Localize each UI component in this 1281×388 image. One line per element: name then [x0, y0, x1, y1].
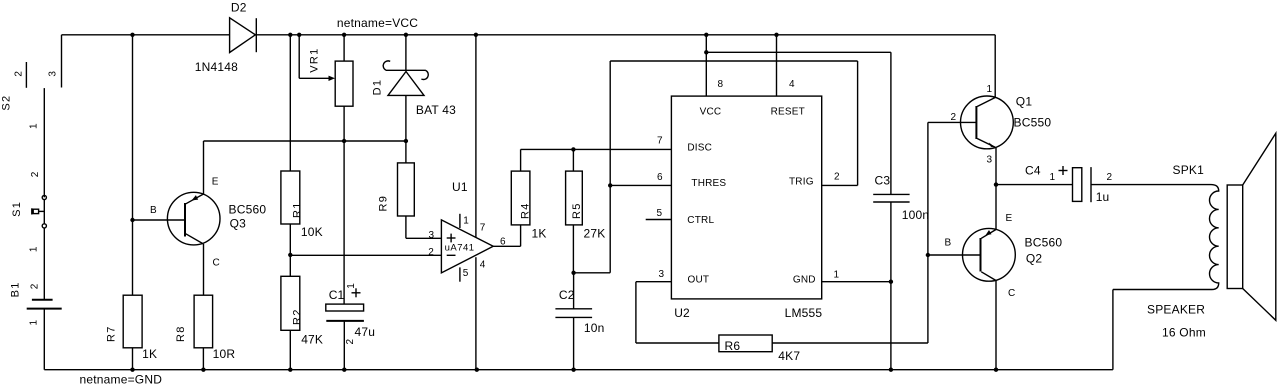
svg-text:7: 7: [657, 136, 663, 147]
svg-text:DISC: DISC: [687, 143, 712, 154]
svg-text:TRIG: TRIG: [789, 177, 814, 188]
svg-text:1u: 1u: [1096, 190, 1110, 204]
svg-text:47u: 47u: [355, 325, 376, 339]
junction: R5 top on DISC wire: [571, 147, 575, 151]
junction: R5/C2/TRIG loop: [571, 271, 575, 275]
svg-text:RESET: RESET: [771, 107, 805, 118]
svg-text:8: 8: [718, 79, 724, 90]
svg-text:47K: 47K: [301, 333, 323, 347]
svg-text:27K: 27K: [584, 227, 606, 241]
svg-text:1: 1: [346, 283, 357, 289]
svg-text:THRES: THRES: [691, 178, 726, 189]
junction: C1 at GND: [342, 368, 346, 372]
svg-text:2: 2: [1107, 172, 1113, 183]
svg-text:VR1: VR1: [308, 47, 320, 72]
svg-text:2: 2: [30, 171, 41, 177]
svg-text:U1: U1: [452, 180, 468, 194]
svg-text:VCC: VCC: [700, 107, 722, 118]
svg-text:netname=GND: netname=GND: [80, 373, 163, 387]
wire DISC net: [521, 148, 672, 150]
svg-text:B: B: [150, 205, 157, 216]
svg-text:OUT: OUT: [688, 275, 710, 286]
svg-text:10K: 10K: [301, 225, 323, 239]
transistor Q1 BC550: [951, 35, 1052, 185]
svg-text:C: C: [213, 257, 220, 268]
junction: VR1 bottom on emitter wire: [342, 139, 346, 143]
svg-text:E: E: [212, 177, 219, 188]
junction: R1/R2 divider: [288, 253, 292, 257]
svg-text:SPEAKER: SPEAKER: [1147, 303, 1205, 317]
junction: U1 pin7 riser at VCC: [474, 33, 478, 37]
junction: Q3 base tap: [130, 218, 134, 222]
svg-text:5: 5: [463, 268, 469, 279]
svg-text:1K: 1K: [532, 227, 547, 241]
resistor R5 27K: [566, 149, 606, 272]
svg-text:10n: 10n: [584, 321, 605, 335]
junction: VR1 wiper at VCC: [297, 33, 301, 37]
junction: Q1/Q2 base node: [926, 253, 930, 257]
svg-text:100n: 100n: [902, 208, 930, 222]
svg-text:BC560: BC560: [1025, 235, 1063, 249]
junction: C3 tap on pin8 riser: [704, 50, 708, 54]
svg-text:C2: C2: [559, 288, 575, 302]
junction: R1 riser at VCC: [288, 33, 292, 37]
svg-text:16 Ohm: 16 Ohm: [1162, 326, 1206, 340]
junction: D1/R9 on emitter wire: [404, 139, 408, 143]
net VCC rail: [62, 16, 996, 35]
svg-text:1N4148: 1N4148: [195, 60, 238, 74]
wire S1 to B1: [43, 228, 45, 300]
speaker SPK1: [1113, 133, 1276, 369]
capacitor C4 1u: [996, 164, 1211, 205]
potentiometer VR1: [299, 35, 353, 141]
junction: VR1 top at VCC: [342, 33, 346, 37]
wire Q3 base: [133, 219, 186, 221]
svg-text:1: 1: [29, 320, 40, 326]
resistor R1 10K: [281, 35, 323, 276]
svg-text:netname=VCC: netname=VCC: [337, 16, 418, 30]
resistor R9: [378, 163, 442, 238]
junction: U1 pin4 at GND: [475, 368, 479, 372]
svg-text:uA741: uA741: [445, 243, 475, 254]
svg-text:CTRL: CTRL: [687, 215, 714, 226]
svg-text:4: 4: [789, 79, 795, 90]
svg-text:Q3: Q3: [230, 217, 247, 231]
svg-text:1: 1: [987, 84, 993, 95]
svg-text:3: 3: [47, 71, 58, 77]
transistor Q2 BC560: [945, 185, 1063, 370]
svg-text:7: 7: [480, 223, 486, 234]
wire VCC to Q3 base / R7: [132, 35, 134, 295]
wire VCC to C3: [706, 52, 891, 194]
junction: R8 at GND: [201, 368, 205, 372]
junction: Q2 collector at GND: [994, 368, 998, 372]
svg-text:SPK1: SPK1: [1173, 163, 1205, 177]
svg-text:1: 1: [834, 270, 840, 281]
svg-text:1: 1: [1050, 172, 1056, 183]
wire THRES/TRIG loop: [574, 61, 858, 273]
svg-text:R7: R7: [106, 325, 118, 342]
svg-text:1: 1: [29, 246, 40, 252]
op-amp U1 uA741: [428, 35, 520, 370]
diode D1 BAT43: [372, 35, 457, 163]
svg-text:U2: U2: [674, 306, 690, 320]
junction: THRES tap: [608, 183, 612, 187]
svg-text:6: 6: [657, 172, 663, 183]
svg-text:C1: C1: [329, 288, 345, 302]
junction: U2 pin8 riser at VCC: [704, 33, 708, 37]
junction: C2 at GND: [571, 368, 575, 372]
wire R6 to base junction: [772, 122, 980, 343]
svg-text:3: 3: [987, 155, 993, 166]
svg-text:R8: R8: [175, 325, 187, 342]
junction: Q1E/Q2E/C4 node: [994, 182, 998, 186]
resistor R8 10R: [175, 295, 235, 370]
capacitor C2 10n: [555, 273, 604, 370]
svg-text:6: 6: [500, 237, 506, 248]
IC U2 LM555: [636, 35, 891, 320]
svg-text:2: 2: [951, 112, 957, 123]
svg-text:D1: D1: [372, 79, 384, 96]
svg-text:R4: R4: [520, 202, 532, 219]
svg-text:B1: B1: [10, 281, 22, 297]
svg-text:R5: R5: [571, 202, 583, 219]
capacitor C3 100n: [873, 174, 929, 370]
wire B1 to GND rail: [43, 309, 45, 370]
svg-text:R1: R1: [291, 201, 303, 218]
svg-text:R2: R2: [291, 308, 303, 325]
svg-text:B: B: [945, 237, 952, 248]
svg-text:Q1: Q1: [1016, 95, 1033, 109]
svg-text:BC560: BC560: [229, 203, 267, 217]
svg-text:LM555: LM555: [785, 306, 823, 320]
svg-text:1: 1: [28, 123, 39, 129]
svg-text:R6: R6: [725, 339, 741, 353]
svg-text:E: E: [1006, 213, 1013, 224]
svg-text:GND: GND: [793, 275, 816, 286]
svg-text:BC550: BC550: [1014, 115, 1052, 129]
svg-text:1K: 1K: [142, 347, 157, 361]
junction: U2 pin4 riser at VCC: [774, 33, 778, 37]
net GND rail: [44, 370, 1113, 387]
capacitor C1 47u: [326, 141, 375, 370]
svg-text:5: 5: [657, 208, 663, 219]
svg-text:3: 3: [429, 230, 435, 241]
transistor Q3 BC560: [150, 141, 266, 295]
wire R1/R2 junction to op-amp pin 2: [290, 254, 441, 256]
resistor R2 47K: [281, 276, 323, 369]
svg-text:2: 2: [29, 283, 40, 289]
svg-text:S1: S1: [11, 201, 23, 217]
junction: C3/GND pin wire: [889, 280, 893, 284]
svg-text:BAT 43: BAT 43: [416, 103, 456, 117]
resistor R4 1K: [511, 149, 546, 246]
junction: R7 at GND: [130, 368, 134, 372]
battery B1: [10, 281, 62, 325]
svg-text:2: 2: [428, 247, 434, 258]
svg-text:4K7: 4K7: [778, 349, 800, 363]
junction: D1 cathode at VCC: [404, 33, 408, 37]
svg-text:10R: 10R: [213, 347, 236, 361]
resistor R7 1K: [106, 295, 158, 370]
resistor R6 4K7: [719, 335, 800, 363]
svg-text:D2: D2: [231, 0, 247, 14]
junction: C3 at GND: [889, 368, 893, 372]
svg-text:S2: S2: [0, 95, 12, 111]
diode D2 1N4148: [195, 0, 256, 74]
svg-text:C4: C4: [1025, 164, 1041, 178]
wire Q3 emitter node: [204, 140, 406, 142]
switch S1: [11, 171, 46, 252]
junction: R2 at GND: [288, 368, 292, 372]
wire OUT to R6: [636, 282, 719, 343]
svg-text:3: 3: [659, 269, 665, 280]
svg-text:Q2: Q2: [1026, 251, 1043, 265]
svg-text:C3: C3: [875, 174, 891, 188]
svg-text:2: 2: [834, 171, 840, 182]
svg-text:1: 1: [463, 216, 469, 227]
junction: Q3 base riser at VCC: [130, 33, 134, 37]
svg-text:R9: R9: [378, 195, 390, 212]
svg-text:2: 2: [14, 71, 25, 77]
svg-text:4: 4: [480, 260, 486, 271]
svg-text:2: 2: [345, 339, 356, 345]
switch S2: [0, 35, 61, 198]
svg-text:C: C: [1008, 288, 1015, 299]
